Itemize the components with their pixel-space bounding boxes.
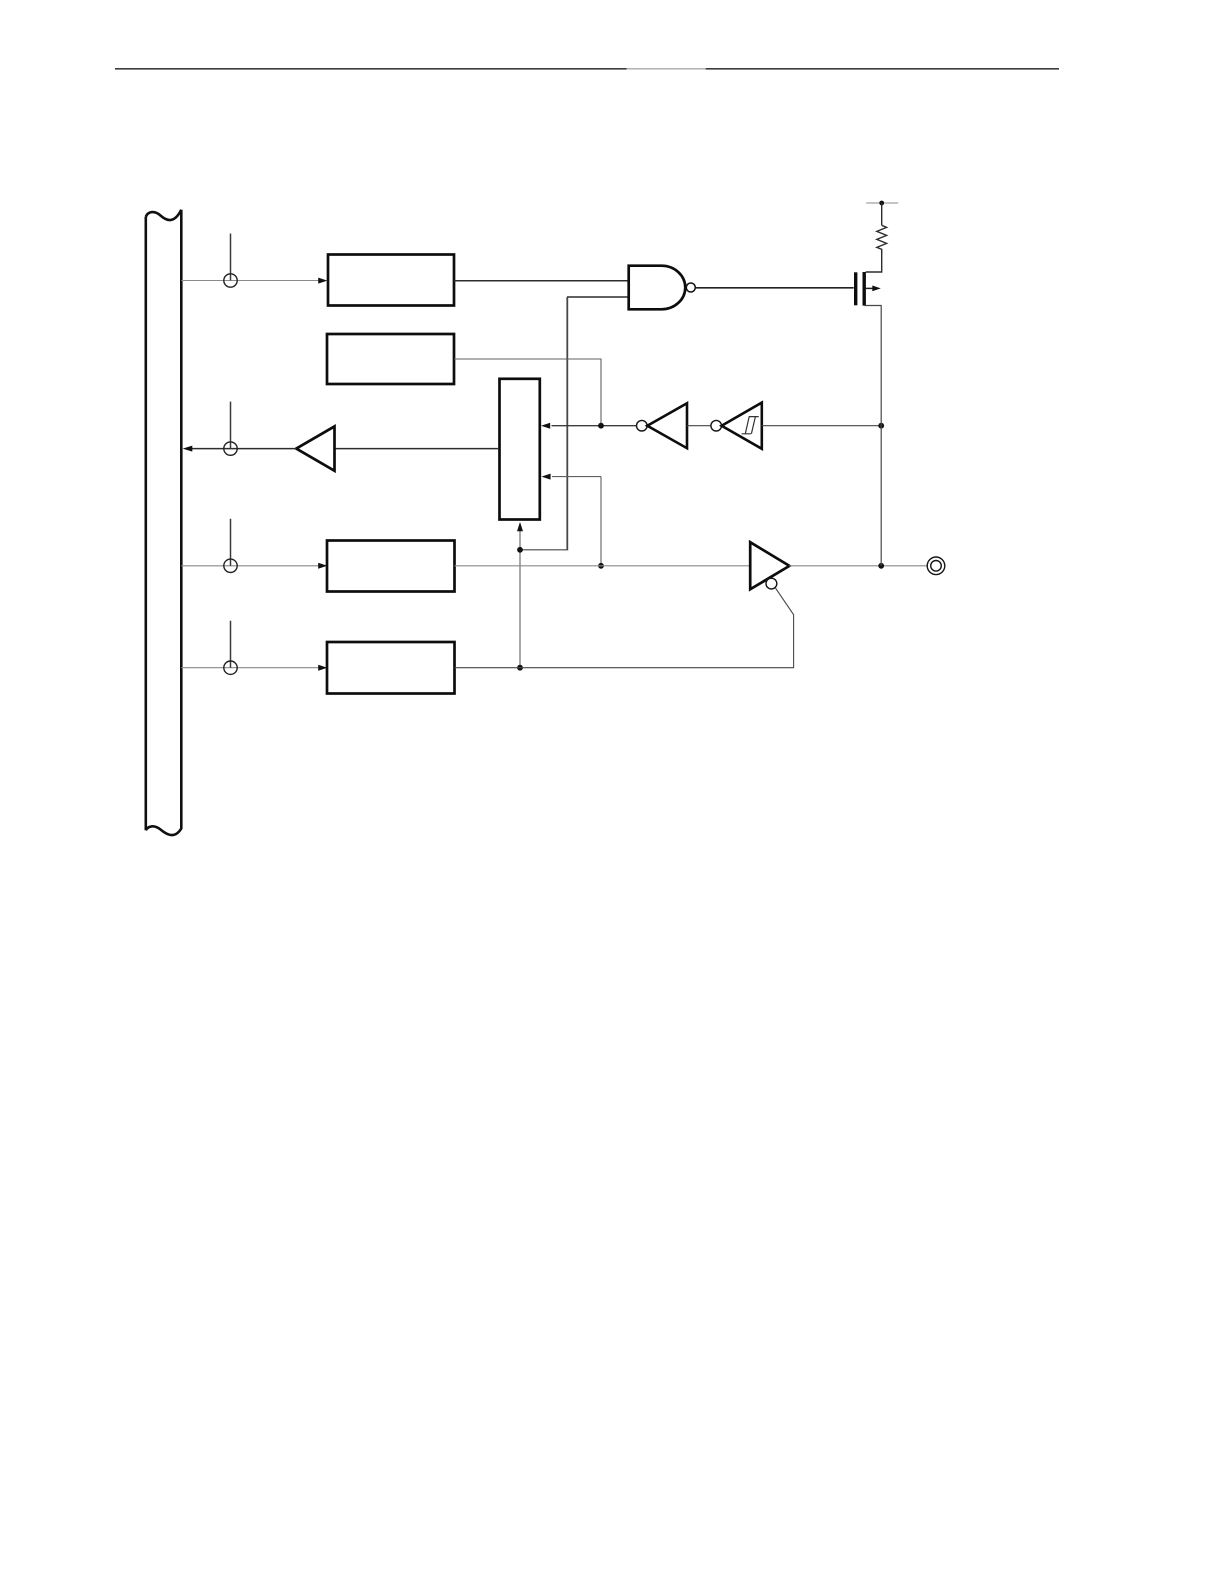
pull-up resistor (877, 225, 887, 253)
arrowhead into selector bottom (517, 522, 523, 531)
wire: jog from selector-bottom junction to NAND riser (520, 297, 568, 550)
wire: NAND input B horizontal (567, 296, 629, 298)
header rule faded middle segment (627, 68, 706, 70)
power rail (866, 202, 898, 204)
arrowhead into bus (183, 446, 193, 452)
junction: selector bottom riser with box4 output (517, 665, 523, 671)
hysteresis symbol (742, 417, 759, 434)
junction: rail with resistor (879, 201, 884, 206)
wire: U3 to U2 (687, 425, 711, 427)
bus tap connector circle 1 (224, 274, 237, 287)
bus tap stub 3 (230, 519, 232, 566)
junction: riser with box3 output line (598, 563, 604, 569)
wire: selector output to read buffer (334, 448, 499, 450)
MOSFET gate bar (854, 272, 857, 305)
output driver triangle (750, 542, 789, 589)
bus tap connector circle 3 (224, 559, 237, 572)
wire: box2 output jog to selector input 1 line (454, 359, 601, 426)
wire: bus tap to box3 (181, 565, 318, 567)
header rule right segment (706, 68, 1059, 70)
arrowhead into box3 (318, 563, 327, 569)
internal data bus (torn ends) (146, 210, 182, 835)
arrowhead into box4 (318, 665, 327, 671)
wire: resistor to MOSFET source (866, 251, 882, 272)
inverter U2 output bubble (637, 420, 648, 431)
wire: pin line to schmitt U3 input (762, 425, 881, 427)
read buffer triangle (296, 426, 334, 470)
wire: box4 output / enable run (455, 588, 794, 668)
pad (double circle) (927, 557, 945, 575)
junction: box2 jog with selector input 1 (598, 423, 604, 429)
wire: MOSFET drain lead (864, 306, 881, 566)
wire: selector input 2 riser x=601 (600, 477, 602, 566)
wire: NAND output to MOSFET gate (695, 287, 853, 289)
output driver enable bubble (766, 578, 777, 589)
arrowhead into selector input 1 (541, 423, 550, 429)
selector box (500, 379, 540, 520)
bus tap stub 4 (230, 621, 232, 668)
schmitt trigger inverter U3 (722, 403, 762, 449)
wire: read buffer to bus (191, 448, 297, 450)
wire: bus tap to box4 (181, 667, 318, 669)
register box4 (327, 642, 455, 694)
register box2 (327, 334, 454, 384)
NAND output bubble (686, 283, 695, 292)
wire: bus tap to box1 (181, 280, 318, 282)
junction: drain line with schmitt input (878, 423, 884, 429)
MOSFET source arrow (866, 287, 873, 289)
junction: drain line with output line (878, 563, 884, 569)
wire: NAND input B vertical riser x=567 (566, 297, 568, 550)
wire: inverter chain to selector input 1 (552, 425, 637, 427)
arrowhead into box1 (318, 278, 327, 284)
bus tap connector circle 4 (224, 661, 237, 674)
wire: box1 output to NAND input A (454, 280, 629, 282)
bus tap stub 2 (230, 402, 232, 449)
junction: selector bottom riser with NAND jog (517, 547, 523, 553)
bus tap connector circle 2 (224, 442, 237, 455)
inverter U2 (647, 403, 687, 448)
header rule left segment (115, 68, 627, 70)
wire: selector input 2 horizontal (552, 476, 601, 478)
bus tap stub 1 (230, 234, 232, 281)
schmitt U3 output bubble (711, 420, 722, 431)
MOSFET channel bar (863, 272, 866, 306)
wire: output driver to pad (789, 565, 927, 567)
wire: rail to resistor (881, 203, 883, 225)
NAND gate U1 (629, 266, 686, 310)
arrowhead into selector input 2 (541, 474, 550, 480)
register box1 (328, 255, 454, 306)
wire: box3 output to output driver (455, 565, 751, 567)
wire: selector bottom entry vertical x=520 (519, 531, 521, 668)
register box3 (327, 541, 455, 592)
